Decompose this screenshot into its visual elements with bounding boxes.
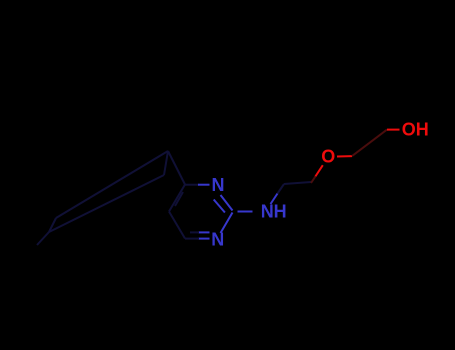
svg-text:OH: OH: [402, 120, 429, 140]
pyrimidine ring: C5=C6 double bond inner line: [175, 192, 183, 206]
bond CH2b-O (red): [315, 165, 323, 177]
pyrimidine ring: N1=C2 double bond inner line: [214, 200, 225, 213]
svg-text:N: N: [211, 230, 224, 250]
bond NH-CH2a dark half: [278, 184, 285, 194]
bond V1-V2 (dark red): [352, 130, 387, 157]
bond CH2b-O dark half: [311, 176, 316, 183]
bond C2-NH: [238, 211, 253, 213]
bond V2-OH (red): [387, 129, 400, 131]
pyrimidine ring: bond N1-C6 dark half: [185, 184, 199, 186]
pyrimidine ring: C4=N3 double bond inner line dark half: [190, 231, 199, 233]
pyrimidine ring: N1=C2 double bond main line: [221, 195, 233, 211]
svg-text:O: O: [321, 147, 335, 167]
left substituent: bond C6-A: [168, 151, 185, 185]
svg-text:N: N: [212, 175, 225, 195]
bond O-V1 (red): [337, 155, 352, 157]
bond CH2a-CH2b: [284, 182, 311, 184]
left substituent: far-left terminal tick: [37, 232, 49, 245]
left substituent: right cap E-A: [164, 151, 168, 175]
pyrimidine ring: bond N1-C6 bright half: [198, 184, 210, 186]
pyrimidine ring: bond C2-N3: [221, 213, 233, 234]
bond NH-CH2a bright half: [271, 194, 278, 205]
pyrimidine ring: bond C6-C5: [169, 185, 185, 212]
svg-text:NH: NH: [261, 202, 287, 222]
pyrimidine ring: C4=N3 main line dark half: [185, 238, 199, 240]
left substituent: upper long edge A-B: [56, 151, 168, 218]
pyrimidine ring: C4=N3 double bond inner line bright half: [198, 231, 210, 233]
left substituent: left cap B-C: [49, 218, 56, 232]
left substituent: lower long edge C-E: [49, 175, 164, 232]
pyrimidine ring: bond C5-C4: [169, 212, 185, 239]
pyrimidine ring: C4=N3 main line bright half: [198, 238, 210, 240]
